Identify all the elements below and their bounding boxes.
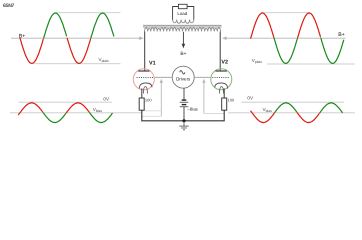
waveform V1 grid (bottom-left) — [19, 103, 113, 123]
V1 grid (dashed) — [137, 77, 154, 79]
reference line 0V right — [241, 101, 344, 103]
node B+ center tap arrow — [182, 32, 186, 49]
svg-text:Vbias: Vbias — [93, 107, 103, 113]
drivers sine symbol — [180, 71, 185, 74]
svg-text:Load: Load — [177, 11, 187, 16]
svg-text:Vbias: Vbias — [263, 107, 273, 113]
resistor R1 (V1 cathode, 100) — [139, 98, 144, 110]
wire primary left end to V1 plate — [144, 31, 146, 71]
svg-text:100: 100 — [145, 98, 152, 103]
resistor Load — [178, 4, 187, 8]
transistor V1 (triode tube, red envelope) — [133, 69, 154, 98]
wire grid-signal arrow V2 (up) — [202, 79, 205, 114]
wire drivers to battery — [183, 88, 185, 100]
reference line peak level left — [56, 12, 121, 14]
reference line trough level right — [267, 63, 355, 65]
node Vplate-right axis line (B+ level) with arrow to V2 plate — [222, 36, 346, 40]
waveform V2 grid (bottom-right) — [251, 103, 342, 123]
transformer T1 core — [143, 24, 222, 26]
wire grid-signal arrow V1 (up) — [160, 79, 163, 117]
reference line trough level left — [34, 63, 121, 65]
wire drivers to V1 grid — [155, 76, 173, 78]
node Vbias-left axis line — [10, 112, 142, 114]
wire battery to ground rail — [183, 107, 185, 121]
wire load loop — [173, 7, 194, 20]
wire cathode ground rail — [142, 110, 224, 121]
V2 plate — [216, 70, 227, 72]
svg-text:–Bias: –Bias — [187, 107, 197, 112]
svg-text:V1: V1 — [149, 60, 156, 66]
svg-text:100: 100 — [228, 98, 235, 103]
wire faint connector left (bias line to grid arrow) — [142, 111, 162, 117]
wire drivers to V2 grid — [194, 76, 210, 78]
op-amp U1 drivers source circle — [172, 66, 194, 88]
svg-text:B+: B+ — [180, 51, 186, 57]
battery -Bias — [180, 100, 189, 107]
transistor V2 (triode tube, green envelope) — [211, 69, 232, 98]
V1 cathode — [139, 83, 152, 89]
V2 heater — [220, 87, 224, 94]
svg-text:6SN7: 6SN7 — [3, 3, 15, 9]
node junction dot — [182, 119, 185, 122]
svg-text:B+: B+ — [338, 32, 345, 38]
transformer T1 secondary winding — [173, 20, 194, 24]
svg-text:Drivers: Drivers — [176, 77, 191, 82]
V2 cathode — [215, 83, 228, 89]
transformer T1 primary winding — [145, 28, 221, 32]
V2 grid (dashed) — [212, 77, 229, 79]
waveform V2 plate (top-right) — [251, 13, 344, 63]
wire faint connector right (grid arrow to cathode leg) — [204, 113, 224, 115]
node Vplate-left axis line (B+ level) with arrow to V1 plate — [11, 36, 144, 40]
svg-text:0V: 0V — [103, 96, 110, 101]
reference line 0V left — [18, 101, 112, 103]
svg-text:V2: V2 — [221, 59, 228, 65]
ground — [179, 121, 188, 130]
node Vbias-right axis line — [228, 112, 355, 114]
svg-text:Vplate: Vplate — [252, 58, 263, 64]
wire V1 cathode to R1 — [141, 88, 143, 98]
V1 heater — [143, 87, 147, 94]
waveform V1 plate (top-left) — [20, 13, 114, 63]
svg-text:Vplate: Vplate — [99, 57, 110, 63]
V1 plate — [138, 70, 149, 72]
reference line peak level right — [263, 12, 311, 14]
resistor R2 (V2 cathode, 100) — [222, 98, 227, 110]
wire primary right end to V2 plate — [219, 31, 221, 71]
wire V2 cathode to R2 — [223, 88, 225, 98]
svg-text:0V: 0V — [247, 96, 254, 101]
